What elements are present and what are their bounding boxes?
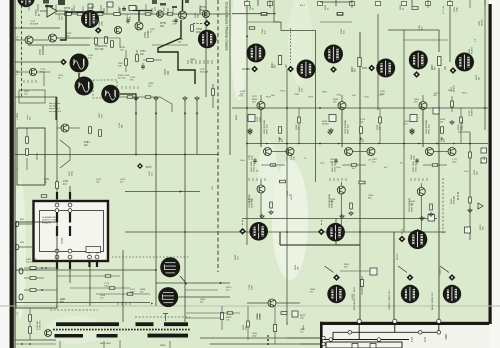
bll components [29, 315, 32, 322]
row2 resistor ch1 [280, 180, 286, 183]
wire v752 link [138, 14, 140, 22]
bl dash detail [117, 302, 119, 305]
svg-text:V918: V918 [308, 96, 314, 98]
svg-text:1 C 2-14: 1 C 2-14 [443, 5, 445, 14]
connector box top [129, 6, 136, 11]
bl resistor row3 [30, 289, 36, 292]
wire v x378 [377, 14, 379, 110]
svg-text:R809: R809 [226, 317, 232, 319]
texture labels right half [238, 90, 484, 173]
wire corner x280 [279, 232, 281, 245]
wire v x230 [229, 0, 231, 155]
tr top stubs [269, 0, 271, 8]
svg-text:R933: R933 [352, 66, 354, 72]
junction dot 2 [359, 143, 361, 145]
wire v x404 [403, 30, 405, 232]
svg-text:SUPPLY CTRL: SUPPLY CTRL [42, 220, 58, 222]
ground symbol 3 [260, 214, 264, 218]
svg-text:Chassis Board / Plasma chassis: Chassis Board / Plasma chassis [225, 2, 229, 51]
transistor V765 [61, 124, 69, 132]
connector drop x438 [438, 323, 440, 332]
resistor R753 [114, 13, 121, 16]
svg-text:BC858: BC858 [322, 124, 329, 126]
opamp triangle V751 [47, 5, 57, 17]
arrow bottom GRN [398, 266, 407, 273]
svg-text:C933 1n5: C933 1n5 [416, 162, 418, 172]
wire h y283 [156, 282, 230, 284]
svg-text:R784: R784 [84, 142, 90, 144]
scan streak right [288, 0, 312, 85]
top strip speck a [45, 5, 53, 7]
bl pin oval bot [19, 294, 23, 300]
wire zigzag [60, 140, 70, 168]
wire h y270 left [15, 269, 156, 271]
bs dots [267, 335, 269, 337]
wire v x320 staircase [274, 0, 316, 182]
scan streak topcenter [231, 0, 247, 100]
diamond ch3b [450, 67, 457, 74]
svg-text:D737: D737 [96, 179, 102, 181]
svg-text:BC858: BC858 [472, 109, 474, 116]
svg-text:BC848B: BC848B [42, 45, 45, 55]
connector pin b1b [418, 331, 422, 335]
resistor R772 [212, 89, 215, 96]
svg-text:PM751: PM751 [36, 152, 39, 160]
module inner parts [26, 137, 29, 144]
right edge white boxes [481, 148, 487, 153]
svg-text:LJ-5xx: LJ-5xx [16, 112, 19, 120]
diamond bottom BLU [449, 274, 456, 281]
svg-text:BC858: BC858 [472, 47, 474, 54]
diamond mid1 [239, 228, 246, 235]
wire h y340 bl [15, 339, 56, 341]
svg-text:R731: R731 [380, 91, 386, 93]
junction dot 0 [286, 107, 288, 109]
svg-text:OUT: OUT [410, 337, 413, 343]
arrow down x247 [246, 36, 248, 38]
svg-text:R957 150: R957 150 [429, 124, 431, 134]
junction dot 8 [184, 154, 186, 156]
resistor ch1 [278, 56, 281, 65]
svg-text:R766 C763: R766 C763 [118, 75, 130, 77]
svg-text:with pri feed: with pri feed [49, 102, 61, 105]
svg-text:R961: R961 [448, 90, 454, 92]
mid marks [217, 154, 219, 156]
wire h y232 [125, 231, 446, 233]
ground symbol 4 [340, 214, 344, 218]
wire h y143 right [247, 143, 488, 145]
channel2 cluster [338, 102, 346, 110]
svg-text:R953: R953 [432, 64, 434, 70]
connector box border left [320, 322, 323, 348]
arrows y143 extra [266, 143, 268, 145]
ground symbol 0 [248, 130, 252, 134]
left page black bar [10, 0, 14, 348]
wf photo left mid [70, 54, 89, 73]
mr res [361, 280, 364, 287]
svg-text:D928: D928 [404, 121, 410, 123]
tl extra parts row [77, 13, 83, 15]
dashed line top-left [21, 0, 23, 98]
svg-text:C973 100n: C973 100n [462, 119, 464, 130]
svg-text:4k7 10n: 4k7 10n [118, 78, 127, 80]
svg-text:B175: B175 [146, 167, 152, 169]
wire v x336 [335, 218, 337, 245]
svg-text:PM80: PM80 [160, 345, 166, 347]
lc dashes [23, 80, 25, 83]
box left pins [322, 336, 325, 339]
wire v x70 [69, 186, 71, 201]
diamond tp mid [137, 163, 143, 169]
wire tp ch0 [193, 22, 203, 24]
connector bus2 [323, 339, 409, 341]
dashed stub mid3 [401, 229, 403, 234]
svg-text:R791 C791: R791 C791 [26, 259, 38, 261]
bl rows extra [57, 275, 120, 277]
bl pin oval top [19, 268, 23, 274]
wf photo top-left corner [17, 0, 34, 7]
wire v x57 lower [56, 249, 58, 270]
svg-text:BLUE VIDEO OUT: BLUE VIDEO OUT [432, 291, 434, 310]
edge pin b [15, 244, 19, 249]
IC box N750 outer [34, 201, 109, 261]
transistor V752 [135, 22, 143, 30]
wire h y245 thick [280, 244, 360, 246]
svg-text:R903: R903 [272, 62, 274, 68]
wire v x485 [484, 0, 486, 130]
wire diamond left [15, 61, 60, 63]
connector pin c3 [437, 319, 441, 323]
bottom IC bar seg1 [56, 322, 119, 326]
wire h y191 [125, 191, 200, 193]
resistor ch3 [438, 57, 441, 66]
texture stubs top [29, 4, 200, 13]
connector pin b2a [329, 338, 333, 342]
resistor cluster b [105, 37, 108, 44]
wire v x247 [246, 0, 248, 245]
diamond ch1a [251, 66, 258, 73]
wire h y344 mid [210, 343, 320, 345]
svg-text:N801 X806: N801 X806 [100, 343, 111, 345]
diamond ch2b [368, 65, 375, 72]
wf photo left mid3 [101, 85, 119, 103]
top edge stubs right [257, 0, 259, 6]
svg-text:C988: C988 [294, 94, 300, 96]
wire h y6 [14, 27, 60, 29]
junction dot 5 [286, 143, 288, 145]
mb res2 [274, 325, 277, 332]
diamond mid3 [399, 236, 406, 243]
wire h y97 [15, 96, 57, 98]
junction dot 12 [359, 231, 361, 233]
bottom IC bar seg3 [164, 322, 188, 326]
wire diamond ch1a [242, 68, 250, 70]
svg-text:BC858: BC858 [454, 85, 456, 92]
bottom IC bar2 seg3 [148, 334, 189, 338]
y232 dots [258, 231, 260, 233]
svg-text:V915: V915 [280, 91, 286, 93]
svg-text:R907 150: R907 150 [267, 124, 269, 134]
svg-text:OUT: OUT [423, 337, 426, 343]
svg-text:X801: X801 [444, 334, 447, 340]
wf photo ch1b [297, 60, 316, 79]
arrow down x136 [135, 113, 137, 115]
svg-text:R986: R986 [322, 91, 328, 93]
ground symbol 7 [183, 96, 187, 100]
svg-text:D857: D857 [118, 63, 124, 65]
resistor cluster a [95, 38, 98, 45]
wf photo bottom RED [327, 285, 345, 303]
diamond ch3a [413, 71, 420, 78]
svg-text:D885: D885 [200, 299, 206, 301]
bold path P1 [60, 12, 104, 40]
wf photo mid2 [326, 223, 345, 242]
svg-text:D889: D889 [330, 199, 336, 201]
connector bus1 left [332, 332, 334, 339]
wire v x360 trunk [359, 32, 361, 322]
ch2 dash detail [410, 178, 412, 181]
junction dot 9 [135, 154, 137, 156]
svg-text:volt 200V: volt 200V [49, 105, 58, 108]
svg-text:D993: D993 [240, 91, 246, 93]
svg-text:R922: R922 [266, 96, 272, 98]
bold path P6 [120, 94, 136, 100]
svg-text:150p: 150p [260, 116, 262, 122]
svg-text:100n: 100n [102, 20, 104, 26]
svg-text:L981: L981 [372, 159, 378, 161]
IC pin bottom 1 [68, 249, 72, 253]
wire h y338 mid [200, 337, 320, 339]
ch2 extra parts [460, 117, 463, 123]
svg-text:C777: C777 [452, 159, 458, 161]
svg-text:C761: C761 [88, 55, 94, 57]
svg-text:RED VIDEO OUT 180V: RED VIDEO OUT 180V [354, 287, 356, 310]
junction dot 4 [436, 143, 438, 145]
arrow down x185 [184, 113, 186, 115]
wf photo ll2 [158, 287, 178, 307]
tl extra small boxes [107, 2, 113, 7]
svg-text:BC858: BC858 [482, 19, 484, 26]
wf photo ch1a [247, 44, 266, 63]
svg-text:B-OUT: B-OUT [397, 253, 399, 260]
junction dot 6 [246, 107, 248, 109]
edge pin a [15, 221, 19, 226]
svg-text:K B: K B [484, 156, 486, 160]
connector box border top [320, 322, 489, 325]
tr wire y22 [247, 21, 280, 23]
tp diamond ch0 [204, 20, 211, 27]
bottom dashed y310 [50, 309, 98, 311]
IC pin bottom box [86, 247, 101, 253]
svg-text:C795 47n: C795 47n [40, 320, 42, 330]
top wire y2 [320, 1, 352, 3]
svg-text:R948: R948 [248, 199, 254, 201]
wf photo ll1 [160, 257, 180, 277]
top strip speck c [172, 6, 177, 8]
transistor V756 left [49, 34, 57, 42]
junction dot 3 [403, 143, 405, 145]
IC pin bottom 2 [88, 249, 92, 253]
resistor cluster c [111, 41, 114, 48]
wire into triangle [40, 10, 47, 12]
svg-text:R912: R912 [462, 92, 468, 94]
ground symbol 5 [420, 216, 424, 220]
svg-text:100n: 100n [104, 286, 110, 288]
junction dot 10 [184, 231, 186, 233]
wire v x136 [135, 100, 137, 155]
svg-text:R707: R707 [24, 91, 30, 93]
tl mid cluster [125, 59, 128, 66]
dashed vertical right [442, 178, 444, 235]
scan streak bottomleft [45, 316, 105, 344]
svg-text:C963: C963 [368, 195, 374, 197]
transistor V754 [179, 11, 187, 19]
wire v x197 [196, 100, 198, 155]
white page corner bottom-right [489, 0, 500, 348]
ch1 extra parts [379, 117, 382, 123]
svg-text:+9V: +9V [212, 186, 214, 190]
svg-text:150p: 150p [72, 170, 74, 176]
ch2 top resistor [337, 13, 343, 15]
row2 gnds [269, 210, 273, 214]
diamond bottom GRN [407, 274, 414, 281]
svg-text:150p: 150p [252, 154, 254, 160]
mb box [292, 311, 298, 317]
bottom wire y302 [15, 302, 150, 304]
mb cluster2 [221, 313, 224, 320]
transistor V755 left [25, 36, 33, 44]
svg-text:+180V: +180V [352, 293, 354, 300]
diamond mid2 [318, 228, 325, 235]
arrow right y191 [180, 190, 182, 192]
dashed stub ch1b [290, 28, 292, 63]
transistor V760 [157, 11, 164, 18]
svg-text:R915: R915 [344, 264, 350, 266]
mid small arrows [298, 143, 300, 145]
tl dash rows2 [121, 86, 123, 89]
svg-text:D892: D892 [440, 119, 446, 121]
IC pin bottom 3 [95, 249, 99, 253]
mr wires [340, 270, 370, 272]
mr box [370, 268, 377, 275]
svg-text:BC848B: BC848B [30, 24, 39, 26]
svg-text:R838: R838 [322, 121, 328, 123]
connector pin b2b [377, 338, 381, 342]
bll transistor [45, 330, 52, 337]
scan streak mid [272, 160, 308, 280]
wire v x287 [286, 69, 288, 322]
row2 extra wires [260, 193, 262, 219]
wf photo ch2b [376, 59, 395, 78]
bs wires [186, 312, 240, 314]
edge wires [19, 223, 34, 225]
top edge smudge c [185, 0, 189, 3]
svg-text:adjust 0,5-1: adjust 0,5-1 [49, 107, 61, 110]
channel mid transistors row2 [257, 185, 265, 193]
arrow bottom BLU [440, 266, 449, 273]
top strip speck b [160, 3, 166, 6]
dashed stub mid2 [320, 220, 322, 226]
svg-text:G-OUT: G-OUT [440, 267, 442, 275]
ground symbol 8 [134, 96, 138, 100]
top wire y40 [404, 39, 448, 41]
small box ch3b [465, 227, 471, 233]
svg-text:100n: 100n [452, 162, 458, 164]
schematic border line left [14, 0, 16, 348]
svg-text:C741: C741 [63, 181, 69, 183]
bold path P4 [158, 20, 195, 84]
bold path P3 [182, 0, 184, 11]
IC box N750 inner [40, 211, 104, 252]
dashed tp box [93, 80, 117, 98]
resistor above box [56, 182, 59, 189]
svg-text:R955: R955 [414, 99, 420, 101]
svg-text:A 2-1: A 2-1 [300, 4, 306, 7]
arrowheads into box [56, 199, 58, 201]
wire y297 right [179, 296, 231, 298]
dashed chassis separator [217, 0, 219, 272]
bold path P5 [79, 73, 84, 80]
IC pin top 0 [55, 209, 59, 213]
svg-text:1M: 1M [479, 77, 481, 80]
wire v x90 [89, 249, 91, 306]
diamond bottom RED [333, 274, 340, 281]
wire h y108 right [232, 107, 488, 109]
tl extra trans [202, 10, 209, 17]
bold path P7 [55, 97, 57, 120]
wire v754 up [182, 0, 184, 11]
wire v x156 [155, 100, 157, 306]
svg-text:C962: C962 [378, 94, 384, 96]
svg-text:L972: L972 [200, 69, 206, 71]
svg-text:C967: C967 [238, 96, 244, 98]
tl dash rows [187, 60, 189, 64]
module box left [17, 128, 45, 185]
white area under bottom-right connector box [322, 325, 489, 348]
rc extra parts [469, 152, 472, 158]
rc extra gnd [468, 208, 472, 212]
resistor R933 trunk [358, 58, 361, 67]
tl extra vstubs [71, 8, 73, 14]
connector pin c1 [357, 319, 361, 323]
mb dots [267, 339, 269, 341]
svg-text:C985: C985 [336, 95, 342, 97]
wire into box 1 [286, 322, 288, 325]
scan streak mid2 [258, 140, 278, 220]
row2 wires [260, 180, 262, 185]
wire v x394 trunk [393, 232, 395, 322]
svg-text:R812: R812 [300, 315, 306, 317]
wire h y45 [28, 44, 90, 46]
svg-text:C771: C771 [104, 283, 110, 285]
connector drop x394 [394, 323, 396, 332]
wf photo left mid2 [75, 77, 94, 96]
wf photo ch0 [198, 30, 217, 49]
arrow ch1a [247, 68, 249, 70]
crease line [0, 305, 500, 307]
svg-text:D711: D711 [130, 289, 136, 291]
svg-text:V713: V713 [360, 119, 366, 121]
mb transistor [268, 299, 276, 307]
wire v x123 [122, 250, 124, 322]
bl resistor row2 [30, 277, 36, 280]
tl lower cluster [127, 96, 133, 98]
svg-text:R787: R787 [60, 299, 66, 301]
connector bus1 [333, 331, 437, 333]
svg-text:B903: B903 [236, 114, 238, 120]
ch2 extra caps [416, 158, 418, 164]
wire v x206 [205, 0, 207, 97]
